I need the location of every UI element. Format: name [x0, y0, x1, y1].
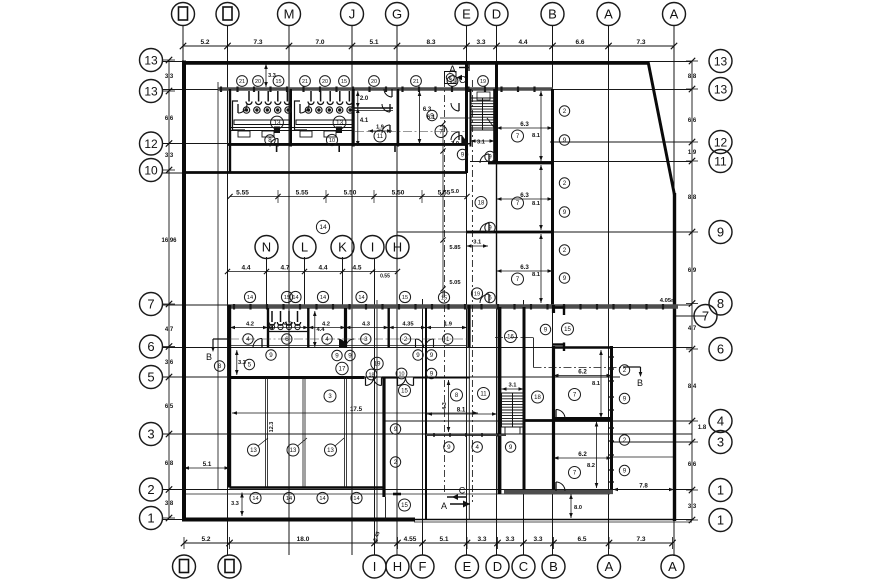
svg-text:9: 9 [348, 353, 352, 360]
svg-text:9: 9 [488, 154, 492, 161]
svg-text:8.1: 8.1 [592, 381, 601, 387]
svg-text:5: 5 [147, 370, 154, 385]
dim 17.5 big room [232, 406, 478, 415]
svg-text:6: 6 [147, 339, 154, 354]
svg-text:9: 9 [430, 371, 434, 378]
svg-text:4.35: 4.35 [402, 322, 414, 328]
svg-text:8.0: 8.0 [574, 505, 582, 511]
svg-text:13: 13 [144, 85, 158, 99]
bottom dimension chain [181, 531, 676, 549]
dim 3.3 top left [264, 64, 276, 87]
svg-text:9: 9 [563, 275, 567, 282]
svg-text:6.6: 6.6 [688, 118, 697, 124]
wall on grid E lower band [467, 305, 470, 348]
right outer wall [673, 193, 676, 521]
big room bottom wall [230, 486, 386, 489]
svg-text:14: 14 [252, 496, 258, 502]
section line A dashed [444, 80, 446, 492]
door stop room1 [274, 127, 280, 134]
svg-text:6.6: 6.6 [165, 116, 174, 122]
svg-text:6.3: 6.3 [520, 121, 529, 128]
svg-text:6.9: 6.9 [688, 268, 697, 274]
dim 3.3 bottom small [231, 493, 244, 517]
wall on grid E upper [465, 62, 468, 173]
svg-text:13: 13 [290, 448, 297, 454]
partition leader line [533, 338, 535, 368]
svg-text:6.2: 6.2 [578, 369, 587, 376]
svg-text:F: F [419, 559, 427, 574]
svg-text:20: 20 [322, 79, 328, 85]
east rooms top wall [554, 346, 612, 348]
svg-text:H: H [393, 559, 402, 574]
svg-text:N: N [262, 240, 271, 255]
section marker B right [623, 367, 643, 388]
dim 3.1 office2 [467, 240, 489, 248]
dim 3.3 band5 vert [235, 350, 247, 375]
svg-text:14: 14 [319, 496, 325, 502]
top grid bubbles D D M J G E D B A A [172, 3, 686, 26]
big room partition P2b [304, 377, 306, 488]
grid 5 wall mid part [414, 377, 470, 379]
cell wall band C4 [388, 308, 390, 348]
svg-text:5.85: 5.85 [449, 245, 461, 251]
door arc office R2 [480, 223, 489, 232]
left dimension chain [161, 57, 177, 521]
svg-text:3: 3 [147, 427, 154, 442]
room ED window wall [426, 433, 506, 437]
svg-text:3.3: 3.3 [533, 536, 542, 543]
toilet room 2 urinals [308, 91, 352, 105]
svg-text:3.3: 3.3 [268, 73, 276, 79]
svg-text:14: 14 [247, 295, 253, 301]
svg-text:20: 20 [371, 79, 377, 85]
svg-text:10: 10 [144, 164, 158, 178]
svg-text:I: I [373, 559, 377, 574]
svg-text:2.0: 2.0 [360, 96, 369, 102]
dim 8.1 office2 vert [532, 165, 543, 230]
toilet partition wall W1 [229, 89, 231, 173]
svg-text:13: 13 [250, 448, 257, 454]
dim 4.1 vertical [356, 108, 369, 146]
svg-text:5.2: 5.2 [200, 39, 209, 46]
dim 8.1 office1 vert [532, 91, 543, 161]
svg-text:15: 15 [450, 79, 456, 85]
bottom outer wall thick [182, 518, 415, 522]
door arc room3 b [382, 125, 390, 133]
toilet room 1 counter and benches [230, 101, 290, 137]
svg-text:7.3: 7.3 [636, 39, 645, 46]
toilet room 2 WC circles [305, 107, 353, 113]
svg-text:3.3: 3.3 [477, 536, 486, 543]
svg-text:4.5: 4.5 [352, 265, 361, 272]
svg-text:14: 14 [320, 295, 326, 301]
grid B wall stub upper [552, 305, 555, 313]
svg-text:10: 10 [329, 138, 335, 144]
bottom grid bubbles D D I H F E D C B A A [173, 555, 685, 578]
svg-text:15: 15 [401, 389, 408, 395]
svg-text:3.3: 3.3 [165, 153, 174, 159]
svg-text:4.4: 4.4 [316, 327, 325, 333]
svg-text:16.96: 16.96 [161, 238, 177, 244]
toilet room 1 urinals [246, 91, 290, 105]
big room partition P2a [302, 377, 304, 488]
svg-text:2: 2 [623, 437, 627, 444]
staircase lower (grid D-C) [502, 393, 524, 434]
svg-text:A: A [670, 7, 679, 22]
svg-text:4.7: 4.7 [280, 265, 289, 272]
svg-text:15: 15 [441, 296, 447, 302]
door arc room4 b [451, 132, 459, 140]
svg-text:4.3: 4.3 [442, 402, 448, 410]
svg-text:14: 14 [286, 496, 292, 502]
svg-text:C: C [459, 486, 466, 496]
door arc room3 a [382, 104, 390, 112]
svg-text:M: M [284, 7, 295, 22]
toilet partition wall W4 [397, 89, 399, 147]
svg-text:D: D [492, 7, 501, 22]
east rooms divider wall [554, 417, 612, 420]
svg-text:1.9: 1.9 [688, 150, 697, 156]
east room wall on grid A [610, 346, 613, 491]
svg-text:4.7: 4.7 [165, 327, 174, 333]
svg-text:2: 2 [404, 336, 408, 343]
middle grid bubbles N L K I H [255, 236, 409, 259]
dim 6.3 office3 [497, 264, 553, 273]
hall wall grid 10 [183, 171, 467, 174]
dim 1.9 toilet [368, 125, 392, 133]
wall stub south [393, 493, 401, 496]
top dimension chain [180, 39, 677, 52]
svg-text:K: K [338, 240, 347, 255]
svg-text:9: 9 [488, 225, 492, 232]
dim 8.1 east room1 vert [592, 350, 603, 418]
svg-text:4.2: 4.2 [246, 322, 254, 328]
dim 4.3 ED vert [442, 380, 450, 432]
svg-text:7.3: 7.3 [253, 39, 262, 46]
svg-text:15: 15 [402, 295, 408, 301]
door arc east room upper [556, 410, 565, 419]
svg-text:G: G [392, 7, 402, 22]
staircase upper (grid E-D) [471, 92, 497, 130]
toilet partition wall W3 [352, 89, 354, 147]
svg-text:21: 21 [413, 79, 419, 85]
door arc toilet2 [300, 104, 309, 113]
svg-text:5.1: 5.1 [369, 39, 378, 46]
svg-text:3.1: 3.1 [473, 240, 482, 246]
svg-text:4: 4 [717, 414, 724, 429]
svg-text:8.1: 8.1 [532, 133, 541, 139]
svg-text:9: 9 [563, 209, 567, 216]
section marker B left [206, 339, 230, 362]
dim 3.1 stairwell [471, 139, 495, 145]
door arc toilet1 [238, 104, 247, 113]
svg-text:8.1: 8.1 [532, 272, 541, 278]
toilet room 2 counter and benches [292, 101, 352, 137]
svg-text:3: 3 [364, 336, 368, 343]
svg-text:D: D [493, 559, 502, 574]
stair enclosure wall left [470, 89, 472, 147]
svg-text:8.8: 8.8 [688, 74, 697, 80]
svg-text:5.1: 5.1 [203, 461, 212, 468]
svg-text:4: 4 [325, 336, 329, 343]
svg-text:18: 18 [478, 201, 485, 207]
svg-text:9: 9 [430, 352, 434, 359]
svg-text:H: H [393, 240, 402, 255]
svg-text:4.3: 4.3 [362, 322, 371, 328]
svg-text:15: 15 [401, 503, 408, 509]
svg-text:2: 2 [147, 482, 154, 497]
svg-text:A: A [441, 501, 447, 511]
door arc east room lower [556, 482, 565, 491]
door arc band cell3 [416, 339, 434, 347]
dim 6.2 east room1 [554, 369, 612, 378]
door jamb stub a [276, 145, 278, 153]
dim 5.55 row [227, 190, 469, 204]
svg-text:16: 16 [507, 335, 514, 341]
svg-text:15: 15 [564, 327, 571, 333]
glazed wall along grid 7 [228, 304, 678, 310]
svg-text:3.1: 3.1 [477, 140, 486, 146]
svg-text:20: 20 [255, 79, 261, 85]
svg-text:B: B [548, 7, 557, 22]
big room partition P3a [344, 377, 346, 488]
svg-text:8.4: 8.4 [688, 384, 697, 390]
svg-text:8.2: 8.2 [587, 463, 595, 469]
centerline band tags [230, 338, 467, 340]
svg-text:6.5: 6.5 [577, 536, 586, 543]
svg-text:B: B [206, 352, 212, 362]
door arc grid5 double [366, 378, 414, 386]
svg-text:9: 9 [430, 113, 434, 120]
svg-text:5.0: 5.0 [451, 189, 459, 195]
horizontal grid lines [162, 62, 706, 523]
svg-text:4.4: 4.4 [241, 265, 250, 272]
svg-text:9: 9 [509, 444, 513, 451]
svg-text:1: 1 [717, 483, 724, 498]
door arc office R1 [480, 154, 489, 163]
svg-text:2: 2 [394, 459, 398, 466]
svg-text:6: 6 [488, 295, 492, 302]
svg-text:C: C [519, 559, 528, 574]
svg-text:5.1: 5.1 [439, 536, 448, 543]
svg-text:14: 14 [358, 295, 364, 301]
svg-text:18.0: 18.0 [297, 536, 310, 543]
cell wall band C1 [267, 308, 269, 348]
svg-text:C: C [459, 75, 466, 86]
svg-text:13: 13 [327, 448, 334, 454]
cell wall band C3 [344, 308, 347, 348]
svg-text:3.6: 3.6 [165, 360, 174, 366]
svg-text:19: 19 [474, 292, 480, 298]
wall on grid D middle [496, 163, 498, 305]
left grid bubbles 13 13 12 10 7 6 5 3 2 1 [140, 49, 163, 530]
svg-text:17.5: 17.5 [350, 406, 363, 413]
dim 8.1 office3 vert [532, 234, 543, 303]
svg-text:4: 4 [475, 444, 479, 451]
lower building west wall [228, 305, 231, 488]
svg-text:13: 13 [144, 54, 158, 68]
svg-text:9: 9 [623, 468, 627, 475]
svg-text:7.8: 7.8 [639, 483, 648, 490]
svg-text:8.1: 8.1 [457, 407, 466, 414]
grid 5 wall jamb mid [382, 376, 397, 378]
section marker C bottom [447, 486, 466, 501]
svg-text:10: 10 [399, 372, 405, 378]
svg-text:3.1: 3.1 [508, 383, 517, 389]
svg-text:14: 14 [292, 295, 298, 301]
dim 6.3 room4 vert [418, 91, 432, 144]
svg-text:9: 9 [563, 137, 567, 144]
svg-text:5.05: 5.05 [449, 280, 461, 286]
door arc band cell1 [253, 339, 262, 348]
svg-text:9: 9 [394, 426, 398, 433]
corner return at B [553, 306, 565, 308]
dim 6.2 east room2 [554, 451, 612, 460]
svg-text:E: E [463, 559, 472, 574]
svg-text:5: 5 [248, 362, 252, 369]
svg-text:5.50: 5.50 [392, 190, 405, 197]
svg-text:12: 12 [144, 137, 158, 151]
svg-text:2: 2 [563, 180, 567, 187]
svg-text:8: 8 [268, 137, 272, 144]
svg-text:6.2: 6.2 [578, 451, 587, 458]
svg-text:9: 9 [269, 352, 273, 359]
room 3 shelf line b [354, 110, 394, 112]
svg-text:I: I [371, 240, 375, 255]
svg-text:12.3: 12.3 [269, 422, 275, 433]
svg-text:3.8: 3.8 [165, 501, 174, 507]
grid 4 wall [524, 419, 613, 422]
svg-text:18: 18 [534, 395, 541, 401]
svg-text:3.3: 3.3 [476, 39, 485, 46]
door arc grid6 hall [249, 172, 251, 174]
svg-text:1.9: 1.9 [444, 322, 453, 328]
svg-text:A: A [668, 559, 677, 574]
dim 8.0 south [569, 494, 582, 518]
big room partition P1b [267, 377, 269, 488]
svg-text:4.2: 4.2 [284, 322, 292, 328]
dim 6.3 office2 [497, 192, 553, 201]
big room east wall [382, 377, 385, 497]
svg-text:A: A [605, 559, 614, 574]
room number tags [214, 76, 629, 511]
svg-text:9: 9 [544, 327, 548, 334]
svg-text:E: E [462, 7, 471, 22]
dim 4.4 band vert [313, 311, 325, 347]
svg-text:2: 2 [563, 247, 567, 254]
svg-text:9: 9 [335, 353, 339, 360]
svg-text:6.5: 6.5 [165, 404, 174, 410]
svg-text:1: 1 [446, 336, 450, 343]
svg-text:13: 13 [714, 55, 728, 69]
door arc band cell2 [338, 339, 355, 347]
dim 8.1 ED [427, 407, 497, 416]
svg-text:13: 13 [273, 120, 281, 127]
right grid bubbles 13 13 12 11 9 8 7 6 4 3 1 1 [694, 50, 732, 532]
dim 7.8 southeast [613, 483, 674, 492]
svg-text:A: A [604, 7, 613, 22]
svg-text:18: 18 [369, 373, 375, 379]
svg-text:7.3: 7.3 [636, 536, 645, 543]
svg-text:9: 9 [447, 444, 451, 451]
dim 4.2 row band [230, 322, 467, 330]
dim line 6.1 GE room [440, 117, 471, 119]
svg-text:19: 19 [480, 79, 486, 85]
dim 6.3 office1 [497, 121, 553, 130]
svg-text:4: 4 [246, 336, 250, 343]
door arc band 12 a [270, 139, 278, 147]
section marker C top [445, 72, 467, 87]
svg-text:6.6: 6.6 [688, 462, 697, 468]
section marker A top [449, 63, 469, 76]
svg-text:15: 15 [276, 79, 282, 85]
svg-text:5.55: 5.55 [236, 190, 249, 197]
big room partition P1a [265, 377, 267, 488]
svg-text:13: 13 [336, 120, 344, 127]
svg-text:6.3: 6.3 [520, 264, 529, 271]
toilet band bottom wall grid 12 [228, 143, 467, 146]
svg-text:B: B [637, 378, 643, 388]
svg-text:L: L [301, 240, 308, 255]
svg-text:11: 11 [377, 134, 384, 140]
svg-text:5.2: 5.2 [201, 536, 210, 543]
section marker A bottom [441, 501, 470, 512]
svg-text:1.8: 1.8 [698, 425, 707, 431]
svg-text:3.3: 3.3 [165, 74, 174, 80]
door jamb stub c [394, 145, 396, 153]
wall on grid B upper [551, 89, 554, 305]
dim 3.1 lower stair [502, 383, 524, 391]
svg-text:9: 9 [717, 225, 724, 240]
svg-text:19: 19 [374, 361, 381, 368]
svg-text:21: 21 [302, 79, 308, 85]
room 3 shelf line [354, 107, 394, 109]
svg-text:14: 14 [353, 496, 359, 502]
bottom outer wall thin [415, 519, 675, 521]
grid 5 wall west part [230, 376, 365, 379]
wall on grid C lower [523, 307, 526, 494]
svg-text:4.4: 4.4 [518, 39, 527, 46]
svg-text:5.55: 5.55 [296, 190, 309, 197]
svg-text:15: 15 [284, 295, 290, 301]
svg-text:2: 2 [623, 367, 627, 374]
cell wall band C5 [425, 308, 427, 348]
wall on grid B lower [552, 346, 555, 492]
svg-text:7: 7 [147, 297, 154, 312]
svg-text:14: 14 [319, 224, 327, 231]
glazed curtain wall along grid 13b [218, 87, 553, 93]
door arc room4 a [451, 103, 459, 111]
svg-text:8.8: 8.8 [688, 195, 697, 201]
room ED left wall [425, 348, 427, 520]
svg-text:7: 7 [702, 309, 709, 324]
corner return at B2 [553, 343, 565, 345]
svg-text:11: 11 [480, 392, 487, 398]
svg-text:5.50: 5.50 [344, 190, 357, 197]
svg-text:J: J [349, 7, 356, 22]
door stop room2 [336, 127, 342, 134]
top outer wall [182, 61, 649, 65]
door jamb stub b [338, 145, 340, 153]
svg-text:2: 2 [563, 108, 567, 115]
svg-text:12: 12 [714, 136, 728, 150]
svg-text:15: 15 [341, 79, 347, 85]
big room partition P3b [346, 377, 348, 488]
door arc G-E room top [384, 89, 392, 97]
cell wall band C2 [307, 308, 309, 348]
dim 8.2 east room2 vert [587, 422, 598, 489]
svg-text:B: B [549, 559, 558, 574]
